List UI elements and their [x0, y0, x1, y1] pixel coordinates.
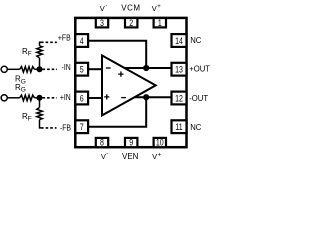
- svg-text:G: G: [21, 87, 26, 94]
- svg-text:5: 5: [80, 65, 84, 75]
- svg-text:-FB: -FB: [60, 123, 71, 133]
- wire node up to RF top: [39, 58, 41, 69]
- svg-text:F: F: [28, 116, 32, 123]
- svg-text:4: 4: [80, 36, 84, 46]
- svg-text:6: 6: [80, 93, 84, 103]
- package body U1: [75, 18, 186, 147]
- dashed lead to -FB: [41, 127, 57, 129]
- resistor RG (top, horizontal): [20, 67, 35, 73]
- svg-text:V: V: [152, 4, 157, 13]
- svg-text:+FB: +FB: [58, 33, 71, 43]
- op-amp plus output glyph (top): [118, 71, 123, 76]
- svg-text:1: 1: [158, 18, 162, 28]
- pin 10 box: [154, 138, 166, 147]
- op-amp minus output glyph (bottom): [121, 97, 126, 99]
- svg-text:VEN: VEN: [122, 152, 139, 161]
- wire node down to RF bottom: [39, 98, 41, 108]
- op-amp plus input glyph (bottom): [104, 94, 109, 99]
- wire pin6 +IN to amp: [88, 97, 103, 99]
- pin 9 box: [125, 138, 137, 147]
- svg-text:14: 14: [175, 36, 183, 46]
- svg-text:12: 12: [175, 93, 183, 103]
- svg-text:9: 9: [129, 138, 133, 148]
- pin 5 box: [75, 63, 88, 76]
- wire RF bottom to elbow: [40, 120, 42, 128]
- input terminal circle (top, -IN side): [1, 66, 7, 72]
- svg-text:11: 11: [175, 122, 183, 132]
- junction node +OUT/+FB: [143, 65, 149, 71]
- dashed lead to +FB: [41, 41, 57, 43]
- pin 11 box: [172, 120, 187, 133]
- wire RG top to node: [35, 68, 40, 70]
- wire +OUT to pin13: [125, 67, 173, 69]
- node junction bottom (RG/RF/+IN): [37, 95, 43, 101]
- svg-text:+: +: [157, 4, 161, 10]
- pin 1 box: [154, 18, 166, 27]
- svg-text:F: F: [28, 51, 32, 58]
- wire pin7 -FB feedback to -OUT node: [88, 97, 146, 127]
- pin 7 box: [75, 120, 88, 133]
- wire pin5 -IN to amp: [88, 68, 103, 70]
- wire -OUT to pin12: [134, 96, 173, 98]
- svg-text:10: 10: [156, 138, 164, 148]
- svg-text:+: +: [158, 153, 162, 159]
- resistor RG (bottom, horizontal): [20, 95, 35, 101]
- svg-text:3: 3: [100, 18, 104, 28]
- svg-text:7: 7: [80, 122, 84, 132]
- pin 3 box: [96, 18, 108, 27]
- svg-text:NC: NC: [190, 36, 201, 45]
- svg-text:+OUT: +OUT: [189, 64, 210, 73]
- svg-text:V: V: [152, 152, 157, 161]
- svg-text:13: 13: [175, 65, 183, 75]
- resistor RF (bottom, vertical): [37, 108, 43, 120]
- wire pin4 +FB feedback to +OUT node: [88, 41, 146, 68]
- svg-text:NC: NC: [190, 122, 201, 131]
- svg-text:VCM: VCM: [121, 4, 140, 13]
- svg-text:8: 8: [100, 138, 104, 148]
- wire terminal to RG top: [7, 68, 19, 70]
- input terminal circle (bottom, +IN side): [1, 95, 7, 101]
- op-amp minus input glyph (top): [106, 67, 111, 69]
- svg-text:+IN: +IN: [60, 92, 71, 102]
- junction node -OUT/-FB: [143, 94, 149, 100]
- svg-text:-OUT: -OUT: [189, 93, 208, 102]
- node junction top (RG/RF/-IN): [37, 66, 43, 72]
- dashed lead to +IN: [43, 97, 57, 99]
- pin 14 box: [172, 34, 187, 47]
- svg-text:-: -: [106, 152, 108, 158]
- pin 8 box: [96, 138, 108, 147]
- op-amp U1 triangle: [102, 55, 156, 115]
- svg-text:-IN: -IN: [62, 62, 71, 72]
- pin 12 box: [172, 92, 187, 105]
- svg-text:V: V: [101, 152, 106, 161]
- svg-text:G: G: [21, 78, 26, 85]
- pin 13 box: [172, 63, 187, 76]
- pin 2 box: [125, 18, 137, 27]
- pin 6 box: [75, 92, 88, 105]
- dashed lead to -IN: [43, 68, 58, 70]
- pin 4 box: [75, 34, 88, 47]
- svg-text:V: V: [100, 4, 105, 13]
- resistor RF (top, vertical): [37, 46, 43, 58]
- wire RG bottom to node: [35, 97, 40, 99]
- wire RF top to elbow: [40, 42, 42, 46]
- svg-text:-: -: [105, 3, 107, 9]
- svg-text:2: 2: [129, 18, 133, 28]
- wire terminal to RG bottom: [7, 97, 19, 99]
